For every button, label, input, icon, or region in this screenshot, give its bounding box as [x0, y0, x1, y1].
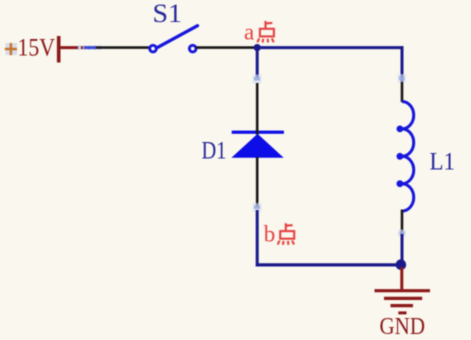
- selection artifact light blue dashes on power wire: [78, 46, 102, 50]
- wire (dark red) from power bar: [59, 46, 84, 49]
- wire (black) down to diode D1: [256, 83, 259, 131]
- ground bar 4: [398, 311, 406, 314]
- wire (black) from inductor bottom: [401, 210, 404, 235]
- ground bar 1: [375, 289, 431, 292]
- wire (navy) right vertical upper: [401, 46, 404, 82]
- wire (navy) right vertical lower to junction: [401, 234, 404, 264]
- wire (navy) middle vertical lower: [256, 210, 259, 266]
- svg-text:a: a: [244, 19, 254, 44]
- junction dot node a: [254, 44, 261, 51]
- wire (black) from switch to node a: [196, 46, 256, 49]
- svg-text:L1: L1: [430, 148, 456, 175]
- ground bar 3: [391, 304, 414, 307]
- inductor L1 loop knob 3: [397, 180, 404, 187]
- svg-text:15V: 15V: [18, 35, 56, 62]
- selection artifact light blue above node b: [253, 203, 262, 212]
- ground bar 2: [384, 297, 422, 300]
- inductor L1 loop knob 2: [397, 153, 404, 160]
- node a label a点: [244, 19, 274, 44]
- inductor L1 loop knob 1: [397, 125, 404, 132]
- wire (black) from diode anode down: [256, 157, 259, 207]
- wire (black) to switch S1: [96, 46, 149, 49]
- node b label b点: [264, 221, 294, 246]
- ground stub wire (dark red): [400, 267, 403, 289]
- selection artifact light blue right branch: [398, 230, 406, 237]
- diode D1 triangle: [231, 134, 283, 158]
- diode D1 cathode bar: [232, 131, 284, 134]
- power supply bar symbol: [57, 36, 61, 63]
- wire (navy) middle vertical below node a: [256, 48, 259, 77]
- wire (black) crossing diode cathode bar: [256, 129, 259, 135]
- switch S1 left contact circle: [150, 45, 157, 52]
- wire (black) to inductor top: [401, 82, 404, 102]
- wire (navy) bottom horizontal: [256, 263, 402, 266]
- wire (blue segment) on power net: [84, 46, 97, 49]
- svg-text:S1: S1: [153, 0, 183, 28]
- wire (navy) node a to top right corner: [257, 46, 403, 49]
- selection artifact light blue below top right corner: [398, 74, 407, 83]
- inductor L1 coil: [402, 102, 414, 212]
- svg-text:b: b: [264, 221, 276, 246]
- switch S1 right contact circle: [189, 45, 196, 52]
- switch S1 blade: [158, 26, 198, 48]
- power supply plus sign (orange): [5, 43, 17, 55]
- selection artifact light blue below node a: [253, 75, 262, 84]
- svg-text:D1: D1: [202, 138, 227, 165]
- junction dot bottom: [396, 259, 407, 270]
- svg-text:GND: GND: [380, 313, 426, 340]
- selection artifact lavender square behind plus: [6, 43, 18, 55]
